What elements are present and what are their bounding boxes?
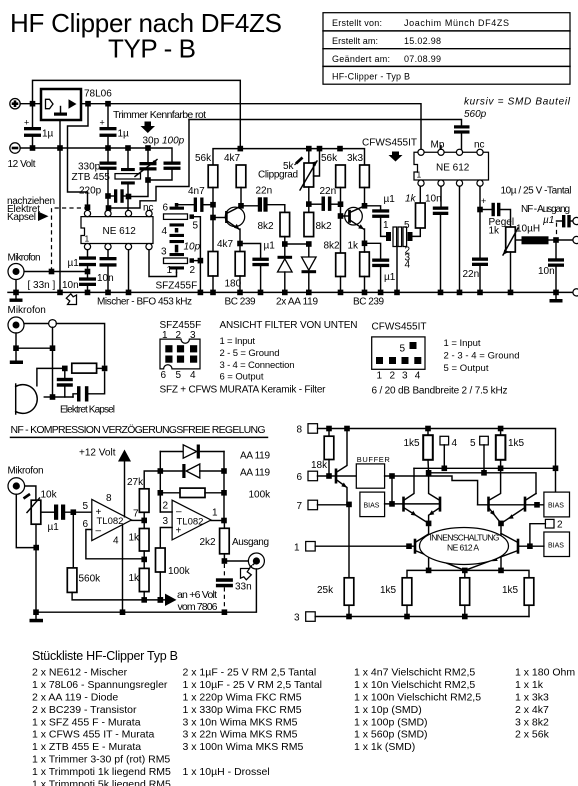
junction lineB left [426,470,432,476]
wire pin4 drop [443,445,445,468]
junction gnd rail x148 [145,145,151,151]
transistor Q-D [501,494,536,524]
svg-text:HF-Clipper - Typ B: HF-Clipper - Typ B [332,72,410,82]
junction Q2 base [338,213,344,219]
junction ground rail x284.8 [282,290,288,296]
ground symbol mic1 [10,292,23,302]
voltage regulator 78L06 [41,89,81,120]
svg-text:+: + [96,507,102,518]
svg-text:1 x ZTB 455 E - Murata: 1 x ZTB 455 E - Murata [32,741,141,753]
svg-text:1 x 100n Vielschicht RM2,5: 1 x 100n Vielschicht RM2,5 [354,691,481,703]
electret capsule [16,384,53,414]
svg-text:1k5: 1k5 [380,585,397,596]
wire pin4 to gnd [122,526,124,613]
svg-text:[ 33n ]: [ 33n ] [28,280,56,291]
resistor 100k horizontal [160,488,224,497]
svg-text:10n: 10n [425,194,442,205]
junction lineA pin4 [442,466,448,472]
wire connector shell down [36,569,256,612]
svg-text:330p: 330p [78,162,101,173]
resistor 4k7 #1 collector [236,165,246,206]
wire mic3 to pot [25,486,36,500]
wire inner top rail [318,429,556,493]
pointer arrow CFWS [389,152,403,162]
svg-text:2: 2 [163,501,169,512]
svg-text:3 x 100n Wima MKS RM5: 3 x 100n Wima MKS RM5 [183,741,304,753]
svg-text:560p: 560p [464,109,487,120]
filter SFZ455F cap pair 3 [170,240,185,256]
junction mic gnd [13,290,19,296]
svg-text:2 - 5 = Ground: 2 - 5 = Ground [220,348,280,359]
junction amp rail x308.8 [306,146,312,152]
junction NF gnd left [33,609,39,615]
resistor 1k5 #1 [423,429,433,473]
svg-text:5: 5 [193,221,199,232]
svg-text:1k: 1k [348,241,360,252]
capacitor 10u tantal [480,196,511,227]
junction ground rail x380.6 [378,290,384,296]
svg-text:kursiv = SMD Bauteil: kursiv = SMD Bauteil [464,97,571,108]
svg-text:µ1: µ1 [543,215,554,226]
svg-text:220p: 220p [79,186,102,197]
svg-text:7: 7 [133,509,139,520]
resistor 1k #b [139,568,149,600]
svg-text:–: – [176,507,182,518]
svg-text:15.02.98: 15.02.98 [404,36,441,46]
svg-text:µ1: µ1 [384,272,396,283]
resistor mid [460,578,470,617]
svg-text:1 x 10p (SMD): 1 x 10p (SMD) [354,704,422,716]
wire 78L06 ground down [59,120,61,292]
junction amp rail x340 [337,146,343,152]
svg-text:5: 5 [83,501,89,512]
svg-text:1 x 220p Wima FKC RM5: 1 x 220p Wima FKC RM5 [183,691,302,703]
junction resistor left [62,366,68,372]
junction 100k left [158,490,164,496]
wire capsule top to resistor row [37,368,65,385]
wire mic2 right line [24,323,48,325]
svg-text:4: 4 [452,438,458,449]
svg-text:5: 5 [400,344,406,355]
junction ground rail x340.5 [338,290,344,296]
junction BFO at pin7 [106,205,112,211]
svg-text:Stückliste HF-Clipper Typ B: Stückliste HF-Clipper Typ B [32,649,178,663]
capacitor 330p [100,148,117,196]
junction amp rail x319.5 [317,146,323,152]
wire pin7 stub [107,196,109,210]
arrow an +6 Volt [165,594,177,606]
junction 100k right [221,490,227,496]
resistor 1k5 #3 [402,578,412,617]
svg-text:7: 7 [297,501,303,512]
capacitor u1 coupling to filter [365,206,390,237]
svg-text:8: 8 [106,493,112,504]
wire filter out to 1k [413,228,421,236]
svg-text:SFZ + CFWS MURATA Keramik - F: SFZ + CFWS MURATA Keramik - Filter [160,385,327,396]
resistor 1k SMD [416,186,426,228]
junction lineA right [553,466,559,472]
svg-text:1 x Trimmpoti 5k liegend RM5: 1 x Trimmpoti 5k liegend RM5 [32,778,171,786]
junction ground rail x128.5 [126,290,132,296]
wire pin4 to filter pin1 [149,250,177,277]
pin 8 #2 [418,149,424,155]
junction gnd rail x128 [125,145,131,151]
svg-text:Kapsel: Kapsel [7,212,36,223]
svg-text:Geändert am:: Geändert am: [332,54,390,64]
svg-text:1k: 1k [405,194,417,205]
svg-text:BIAS: BIAS [548,503,564,510]
capacitor u1 emitter bypass [240,244,269,293]
filter SFZ455F cap pair 4 [170,223,185,237]
svg-text:6: 6 [297,472,303,483]
svg-text:4: 4 [162,226,168,237]
svg-text:1 x 180 Ohm: 1 x 180 Ohm [515,667,575,679]
wire BFO staircase pin7 to rail2 [109,120,190,209]
svg-text:vom 7806: vom 7806 [178,601,218,613]
svg-text:33n: 33n [235,582,252,593]
pencil icon 5k [295,158,303,166]
svg-text:1k: 1k [129,573,141,584]
capacitor u1 at pin1 [79,250,96,278]
wire op2 +in to 100k vert [160,528,172,549]
junction 22n2/pot [306,201,312,207]
wire emitter rail [407,570,529,577]
transistor T1 osc [336,429,347,505]
junction top rail T1 [344,426,350,432]
svg-text:10n: 10n [97,273,114,284]
svg-text:1 x 560p (SMD): 1 x 560p (SMD) [354,729,428,741]
pin square 1 [306,542,316,552]
svg-text:BUFFER: BUFFER [357,455,391,464]
connector NF ausgang [248,553,264,569]
ceramic resonator ZTB 455 [115,148,141,214]
svg-text:BIAS: BIAS [364,503,380,510]
svg-text:1µ: 1µ [42,129,54,140]
junction base line right [534,502,540,508]
transistor Q2 BC239 [341,206,365,243]
svg-text:1 x 10µH - Drossel: 1 x 10µH - Drossel [183,766,270,778]
junction opamp1 out [141,518,147,524]
junction ground rail x87.5 [85,290,91,296]
resistor 1k5 #4 [524,578,534,617]
svg-text:NE 612: NE 612 [436,163,470,174]
svg-text:NE 612 A: NE 612 A [447,543,479,553]
svg-text:Mikrofon: Mikrofon [8,305,46,316]
svg-text:AA 119: AA 119 [240,468,270,479]
svg-text:4k7: 4k7 [217,239,234,250]
svg-text:3 x 8k2: 3 x 8k2 [515,716,549,728]
table row 4 [332,72,410,82]
svg-text:6: 6 [163,203,169,214]
svg-text:78L06: 78L06 [84,89,112,100]
wire buffer out [385,476,478,505]
pin 1 [84,244,90,250]
svg-text:1 x SFZ 455 F - Murata: 1 x SFZ 455 F - Murata [32,716,141,728]
junction top rail 1k5#1 [425,426,431,432]
junction 1kb at +6V line [141,597,147,603]
resistor 1k #a [139,520,149,568]
svg-text:1 x 10n Vielschicht RM2,5: 1 x 10n Vielschicht RM2,5 [354,679,475,691]
pin 3 #2 [456,180,462,186]
svg-text:µ1: µ1 [48,522,60,533]
wire +6V rail (rail1) [81,104,421,150]
resistor 8k2 #2 [304,212,314,236]
svg-text:SFZ455F: SFZ455F [156,281,198,292]
bias box right 2 [544,532,570,557]
junction amp rail x240 [238,146,244,152]
microphone connector #2 [8,317,24,333]
table row 3 [332,54,441,64]
op-amp U2 TL082 [172,500,211,540]
junction left pair emitters [426,521,432,527]
microphone connector #1 [8,264,24,280]
junction 10u tap [477,207,483,213]
svg-text:µ1: µ1 [264,241,276,252]
diode AA119 #1 up [278,256,293,293]
junction ground rail x200.4 [198,290,204,296]
potentiometer 10k [24,494,55,612]
pin 2 [105,244,111,250]
svg-text:+: + [24,118,29,128]
svg-text:1 x 3k3: 1 x 3k3 [515,691,549,703]
arrow kapsel [38,212,49,222]
wire pin1 row right [518,545,544,547]
resistor 560k [67,512,165,600]
pointer nudge arrow mischer [66,294,76,305]
filter CFWS455IT symbol [386,227,413,292]
junction capsule rail [50,345,56,351]
node open circle [49,320,57,328]
transistor T-B1 [415,534,465,570]
svg-text:CFWS455IT: CFWS455IT [372,322,427,333]
resistor capsule bias [72,363,97,373]
potentiometer Pegel 1k [503,227,522,292]
resistor 18k [324,429,334,477]
svg-text:+12 Volt: +12 Volt [79,448,116,459]
wire mic2 bottom to ground [15,333,17,348]
svg-text:3 x 10n Wima MKS RM5: 3 x 10n Wima MKS RM5 [183,716,298,728]
ground symbol right [550,292,563,302]
junction ground rail x60 [57,290,63,296]
svg-text:CFWS455IT: CFWS455IT [362,138,417,149]
capacitor 22n #3 [472,258,488,293]
resistor 180 [235,244,245,293]
junction pin6/18k [326,473,332,479]
svg-text:4n7: 4n7 [188,186,205,197]
potentiometer 5k Clippgrad [300,149,320,213]
resistor 100k vertical [156,548,166,600]
capacitor 10n pin2 [433,186,449,292]
junction ground rail x440.5 [438,290,444,296]
svg-text:180: 180 [225,279,242,290]
svg-text:3: 3 [161,247,167,258]
junction Q2 collector [362,203,368,209]
junction pin7/T1e/25k [346,502,352,508]
capacitor 1u #2 [100,104,117,148]
junction lineA 1k5#2 [498,466,504,472]
wire pin2 drop [530,524,546,547]
pin 6 #2 [456,149,462,155]
svg-text:1k5: 1k5 [502,585,519,596]
wire line B [429,473,536,494]
svg-text:µ1: µ1 [384,194,396,205]
resistor 3k3 [360,165,370,206]
wire amp supply rail [213,149,365,165]
junction 78L06 gnd at rail [57,145,63,151]
wire pin3 rail [315,616,529,618]
capacitor 10n output [548,240,564,292]
capacitor u1 output (dashed SMD) [557,215,574,237]
svg-text:6: 6 [161,370,167,381]
junction right pair emitters [498,521,504,527]
svg-text:10n: 10n [538,266,555,277]
svg-text:1: 1 [294,543,300,554]
svg-text:ZTB 455: ZTB 455 [72,172,111,183]
junction resonator/trimmer node [126,194,132,200]
svg-text:8k2: 8k2 [316,221,333,232]
pin 4 #2 [477,180,483,186]
svg-text:10µ / 25 V -Tantal: 10µ / 25 V -Tantal [501,186,572,197]
svg-text:Joachim Münch DF4ZS: Joachim Münch DF4ZS [404,18,509,28]
svg-text:4: 4 [190,370,196,381]
junction mic node [85,269,91,275]
junction Q1 collector [238,203,244,209]
transistor Q-B [429,473,440,521]
capacitor 100p [151,162,181,181]
svg-text:1 x CFWS 455 IT - Murata: 1 x CFWS 455 IT - Murata [32,729,154,741]
junction 33n gnd [222,609,228,615]
wire right emitters down [500,523,502,570]
wire pin3 to ground #2 [459,186,461,292]
pointer arrow down at trimmer [141,122,156,134]
junction ground rail x364.5 [362,290,368,296]
wire pin1 row left [315,545,415,547]
pin 8 [84,210,90,216]
filter SFZ body bottom view [160,339,200,369]
wire op2 -in [160,496,172,512]
svg-text:µ1: µ1 [68,258,80,269]
svg-text:Mikrofon: Mikrofon [8,253,41,264]
junction pin1 row [406,543,412,549]
resistor 56k #2 [336,165,346,216]
capacitor 10n at pin1 [79,277,96,292]
svg-text:2 x 56k: 2 x 56k [515,729,550,741]
wire op2 out [211,520,224,522]
wire main ground rail [8,291,573,293]
svg-text:3 x 22n Wima MKS RM5: 3 x 22n Wima MKS RM5 [183,729,298,741]
junction ground rail x213 [210,290,216,296]
filter CFWS body bottom view [372,337,425,369]
pin 5 nc#2 [477,149,483,155]
junction gnd rail x108 [105,145,111,151]
svg-text:560k: 560k [79,574,102,585]
svg-text:Erstellt am:: Erstellt am: [332,36,378,46]
svg-text:5 = Output: 5 = Output [444,363,489,374]
wire SFZ output to ground [199,261,201,293]
svg-text:2: 2 [190,265,196,276]
junction emitter rail mid [462,568,468,574]
bias box left [360,492,385,516]
pin 7 Mp [438,149,444,155]
junction bias out [389,501,395,507]
svg-text:100p: 100p [162,136,185,147]
wire pin5 drop [483,445,485,473]
svg-text:NE 612: NE 612 [103,226,137,237]
wire plus terminal to 78L06 [20,103,41,105]
wire quad bases right [478,504,544,506]
svg-text:1k5: 1k5 [404,438,421,449]
junction emitter rail right [498,568,504,574]
svg-text:2k2: 2k2 [200,537,217,548]
svg-text:4: 4 [415,371,421,382]
svg-text:22n: 22n [256,186,273,197]
pin 5 nc [146,210,152,216]
svg-text:56k: 56k [195,153,212,164]
svg-text:30p: 30p [143,136,160,147]
diode AA119 mid [160,464,224,478]
svg-text:4k7: 4k7 [224,153,241,164]
resistor 25k [344,505,354,617]
minus terminal [10,143,20,153]
capacitor 10n at pin2 [100,250,117,293]
junction pin4 gnd [120,609,126,615]
svg-text:TYP - B: TYP - B [108,34,196,64]
microphone connector #3 [8,478,25,495]
svg-text:Ausgang: Ausgang [232,537,269,548]
diode AA119 #2 down [302,244,317,292]
wire trimmer node to resonator node [131,180,148,197]
info table frame [323,13,570,85]
junction Q1 emitter [237,241,243,247]
svg-text:1 x Trimmpoti 1k liegend RM5: 1 x Trimmpoti 1k liegend RM5 [32,766,171,778]
junction lineB pin5 [481,470,487,476]
svg-text:2 x BC239 - Transistor: 2 x BC239 - Transistor [32,704,137,716]
junction dashed at pin8 line [85,204,91,210]
junction loop left mid [158,468,164,474]
filter SFZ455F pin6 plate [170,203,194,210]
junction diode node right [306,241,312,247]
svg-text:1: 1 [167,265,173,276]
capacitor capsule bypass [57,368,73,397]
resistor 2k2 [220,521,230,562]
wire opamp1 -in feedback [86,530,144,559]
op IC NE612 #2 product detector [414,152,489,180]
wire pin6 to buffer [318,475,357,477]
wire jog to NE612#1 pin8 [68,104,89,211]
svg-text:1k: 1k [489,226,501,237]
svg-text:1 x 330p Wima FKC RM5: 1 x 330p Wima FKC RM5 [183,704,302,716]
table row 2 [332,36,441,46]
svg-text:BIAS: BIAS [548,543,564,550]
plus terminal 12V [10,99,20,109]
junction SFZ output [198,258,204,264]
svg-text:2 x 1µF - 25 V RM 2,5 Tantal: 2 x 1µF - 25 V RM 2,5 Tantal [183,667,317,679]
junction on +12V rail [30,101,36,107]
wire capsule bottom row [53,396,74,398]
svg-text:1 x 78L06 - Spannungsregler: 1 x 78L06 - Spannungsregler [32,679,168,691]
wire mic connector to ground [15,280,17,293]
svg-text:3: 3 [294,613,300,624]
svg-text:22n: 22n [463,269,480,280]
connector gnd right [573,289,578,296]
junction pot bottom line [33,545,39,551]
svg-text:Mischer - BFO 453 kHz: Mischer - BFO 453 kHz [97,297,192,308]
transistor Q1 BC239 [216,207,245,244]
junction op2 out [221,518,227,524]
junction pin2 drop node [527,543,533,549]
svg-text:10k: 10k [41,490,58,501]
wire pin3 to ground [128,250,130,293]
